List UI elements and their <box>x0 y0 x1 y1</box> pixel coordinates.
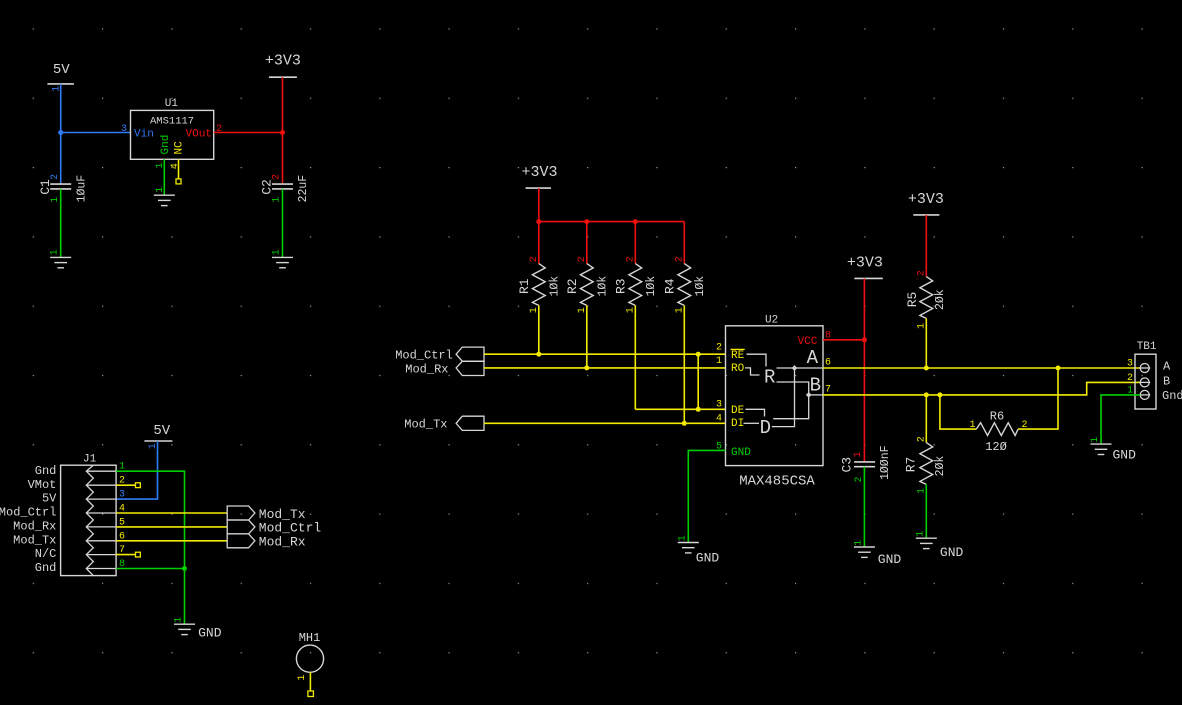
pin 8 U2 <box>825 331 831 342</box>
svg-text:GND: GND <box>696 551 720 566</box>
pin 5 U2 <box>716 442 722 453</box>
pin 2 J1 <box>119 476 125 487</box>
power symbol +3V3 (regulator output) <box>265 53 301 78</box>
svg-text:MH1: MH1 <box>299 631 321 645</box>
net label Mod_Rx (J1 side) <box>227 534 306 550</box>
capacitor C2 <box>259 174 310 203</box>
svg-text:2Øk: 2Øk <box>934 289 947 310</box>
svg-text:2: 2 <box>529 256 540 262</box>
pin 6 U2 <box>825 358 831 369</box>
svg-text:1ØuF: 1ØuF <box>76 175 89 203</box>
wire U2 GND pin <box>688 450 725 542</box>
node Gnd label <box>1162 389 1182 403</box>
pin 1 MH1 <box>297 675 308 681</box>
pin 1 U2 <box>716 356 722 367</box>
wire J1 pin5 <box>116 526 227 528</box>
terminal pin 2 TB1 <box>1127 373 1150 387</box>
svg-text:+3V3: +3V3 <box>847 254 883 271</box>
svg-text:Mod_Tx: Mod_Tx <box>13 533 56 547</box>
wire U1 Gnd pin <box>163 159 165 195</box>
junction R6/B <box>937 392 942 397</box>
wire 5V to U1 Vin <box>61 132 131 134</box>
svg-text:Gnd: Gnd <box>35 464 57 478</box>
svg-text:2: 2 <box>716 343 722 354</box>
resistor R5 20k <box>905 270 947 329</box>
wire Mod_Ctrl to U2 RE <box>484 353 726 355</box>
svg-text:1: 1 <box>969 420 975 431</box>
no-connect flag J1 pin7 <box>136 552 141 557</box>
connector J1 <box>61 454 117 576</box>
terminal pin 1 TB1 <box>1127 386 1150 400</box>
junction ground J1 <box>182 566 187 571</box>
svg-text:C3: C3 <box>840 457 855 473</box>
svg-text:R: R <box>764 366 775 388</box>
wire R2 bottom <box>586 305 588 368</box>
pin 4 U2 <box>716 413 722 424</box>
junction R2/Mod_Rx <box>584 365 589 370</box>
junction R1/Mod_Ctrl <box>536 352 541 357</box>
J1 pin label Mod_Ctrl <box>0 506 56 520</box>
svg-text:1Øk: 1Øk <box>548 276 561 297</box>
svg-text:U1: U1 <box>165 98 179 110</box>
svg-text:GND: GND <box>940 545 964 560</box>
svg-text:N/C: N/C <box>35 547 57 561</box>
wire U1 NC stub <box>178 159 180 179</box>
no-connect flag J1 pin2 <box>136 483 141 488</box>
wire J1 pin1 ground <box>116 471 184 624</box>
U2 internal letter B <box>810 375 821 397</box>
pin 7 J1 <box>119 545 125 556</box>
wire +3V3 to R5 <box>925 215 927 277</box>
svg-text:R7: R7 <box>904 457 919 473</box>
net label Mod_Tx (J1 side) <box>227 506 306 522</box>
power symbol +3V3 (VCC) <box>847 254 883 278</box>
svg-text:+3V3: +3V3 <box>908 191 944 208</box>
svg-text:Mod_Rx: Mod_Rx <box>259 535 306 550</box>
pin 2 U1 <box>216 124 222 135</box>
net label Mod_Ctrl (left) <box>395 347 484 362</box>
junction R5/A <box>924 366 929 371</box>
power symbol 5V (J1) <box>144 423 172 449</box>
svg-text:DE: DE <box>731 405 745 417</box>
power symbol +3V3 (R5) <box>908 191 944 215</box>
no-connect flag U1 NC <box>176 179 181 184</box>
wire C3 to ground <box>863 467 865 547</box>
resistor R7 20k <box>904 436 947 494</box>
U2 pin name VCC <box>798 336 818 348</box>
U2 internal receiver R <box>764 366 775 388</box>
svg-text:5V: 5V <box>42 492 57 506</box>
node B label <box>1163 374 1170 388</box>
svg-text:MAX485CSA: MAX485CSA <box>739 473 815 489</box>
svg-text:AMS1117: AMS1117 <box>150 116 194 128</box>
wire B to R6 <box>940 395 976 429</box>
terminal block TB1 <box>1135 341 1157 409</box>
svg-text:Mod_Rx: Mod_Rx <box>405 362 448 376</box>
svg-text:3: 3 <box>1127 359 1133 370</box>
svg-text:C2: C2 <box>259 179 274 195</box>
svg-text:B: B <box>1163 374 1170 388</box>
svg-text:GND: GND <box>731 447 751 459</box>
junction R4/Mod_Tx <box>682 421 687 426</box>
mounting hole MH1 <box>296 631 323 672</box>
svg-text:2Øk: 2Øk <box>934 456 947 477</box>
wire U2 VCC pin <box>823 339 864 341</box>
svg-text:C1: C1 <box>38 179 53 195</box>
svg-text:1Øk: 1Øk <box>645 276 658 297</box>
wire 5V vertical <box>60 84 62 184</box>
svg-text:GND: GND <box>878 552 902 567</box>
wire R5 to A net <box>925 318 927 368</box>
svg-text:Mod_Tx: Mod_Tx <box>259 507 306 522</box>
svg-text:Vin: Vin <box>134 128 154 140</box>
svg-text:3: 3 <box>119 490 125 501</box>
resistor R6 120 <box>969 410 1027 455</box>
net label Mod_Tx (left) <box>404 416 484 431</box>
wire Mod_Tx to U2 DI <box>484 422 726 424</box>
svg-text:R5: R5 <box>905 292 920 308</box>
junction bus R2 <box>584 219 589 224</box>
junction R7/B <box>924 392 929 397</box>
svg-text:+3V3: +3V3 <box>521 164 557 181</box>
svg-text:1: 1 <box>1090 437 1101 443</box>
pin 7 U2 <box>825 384 831 395</box>
wire B net (pin 7) <box>823 382 1140 395</box>
wire 5V to J1 pin3 <box>116 441 157 499</box>
svg-text:5V: 5V <box>53 62 70 78</box>
power symbol 5V (input) <box>47 62 74 92</box>
svg-text:R1: R1 <box>517 278 532 294</box>
svg-text:Mod_Ctrl: Mod_Ctrl <box>0 506 56 520</box>
svg-text:VCC: VCC <box>798 336 818 348</box>
U2 internal wiring <box>744 354 823 426</box>
svg-text:1: 1 <box>854 540 865 546</box>
U2 pin name DE <box>731 405 745 417</box>
U2 pin name GND <box>731 447 751 459</box>
svg-text:4: 4 <box>170 163 181 169</box>
svg-text:VMot: VMot <box>28 478 57 492</box>
svg-text:1: 1 <box>50 197 61 203</box>
wire R3 to DE row <box>635 408 725 410</box>
svg-text:2: 2 <box>50 174 61 180</box>
svg-text:1ØØnF: 1ØØnF <box>879 445 892 480</box>
svg-text:D: D <box>760 417 771 439</box>
resistor R2 10k <box>565 256 609 313</box>
svg-text:2: 2 <box>917 270 928 276</box>
pin 2 U2 <box>716 343 722 354</box>
wire J1 pin6 <box>116 540 227 542</box>
wire J1 pin7 stub <box>116 554 136 556</box>
junction 5V node <box>58 130 63 135</box>
wire R1 top stub <box>538 222 540 264</box>
terminal pin 3 TB1 <box>1127 359 1150 373</box>
svg-text:Gnd: Gnd <box>35 561 57 575</box>
svg-text:A: A <box>807 347 819 369</box>
svg-text:RE: RE <box>731 350 745 362</box>
wire C2 to ground <box>282 189 284 258</box>
svg-text:J1: J1 <box>83 454 97 466</box>
wire +3V3 vertical <box>282 77 284 184</box>
wire R3 top stub <box>634 222 636 264</box>
pin 3 J1 <box>119 490 125 501</box>
resistor R4 10k <box>663 256 707 313</box>
U2 internal letter A <box>807 347 819 369</box>
svg-text:5V: 5V <box>153 423 170 439</box>
svg-text:1: 1 <box>50 249 61 255</box>
svg-text:1: 1 <box>853 451 864 457</box>
ground under J1 <box>174 617 222 641</box>
J1 pin label VMot <box>28 478 57 492</box>
wire R2 top stub <box>586 222 588 264</box>
U2 pin name DI <box>731 418 744 430</box>
svg-text:1: 1 <box>716 356 722 367</box>
svg-text:2: 2 <box>675 256 686 262</box>
wire A net (pin 6 to TB1) <box>823 367 1140 369</box>
wire R4 top stub <box>683 222 685 264</box>
resistor R3 10k <box>614 256 658 313</box>
J1 pin label Gnd <box>35 561 57 575</box>
wire +3V3 bus <box>539 221 685 223</box>
svg-text:1: 1 <box>272 197 283 203</box>
svg-text:2: 2 <box>577 256 588 262</box>
capacitor C3 100nF <box>840 445 893 482</box>
wire +3V3 to bus <box>538 188 540 222</box>
wire J1 pin8 ground <box>116 568 184 570</box>
junction bus R1 <box>536 219 541 224</box>
svg-text:1: 1 <box>297 675 308 681</box>
net label Mod_Rx (left) <box>405 361 484 376</box>
resistor R1 10k <box>517 256 561 313</box>
svg-text:4: 4 <box>716 413 722 424</box>
svg-text:R2: R2 <box>565 278 580 294</box>
J1 pin label Mod_Rx <box>13 520 56 534</box>
svg-text:GND: GND <box>1113 448 1137 463</box>
svg-text:2: 2 <box>917 436 928 442</box>
wire RE-DE tie <box>697 354 699 409</box>
svg-text:1Øk: 1Øk <box>694 276 707 297</box>
wire R7 top <box>925 395 927 443</box>
junction +3V3 node <box>280 130 285 135</box>
svg-text:DI: DI <box>731 418 744 430</box>
svg-text:Gnd: Gnd <box>1162 389 1182 403</box>
wire R1 bottom <box>538 305 540 354</box>
svg-text:R6: R6 <box>990 410 1004 424</box>
wire R7 to ground <box>925 484 927 538</box>
svg-text:22uF: 22uF <box>297 175 310 203</box>
svg-text:RO: RO <box>731 363 745 375</box>
svg-text:U2: U2 <box>765 315 778 327</box>
svg-text:Mod_Tx: Mod_Tx <box>404 418 447 432</box>
ground under U1 <box>154 187 175 206</box>
net label Mod_Ctrl (J1 side) <box>227 520 321 536</box>
ground under C3 <box>854 540 902 567</box>
wire MH1 stub <box>309 672 311 691</box>
wire C1 to ground <box>60 189 62 258</box>
wire R6 to A <box>1018 368 1058 429</box>
svg-text:R4: R4 <box>663 278 678 294</box>
op-amp U1 AMS1117 regulator <box>131 98 214 160</box>
svg-text:+3V3: +3V3 <box>265 53 301 70</box>
ground under R7 <box>915 531 963 560</box>
J1 pin label 5V <box>42 492 57 506</box>
svg-text:Gnd: Gnd <box>160 135 172 155</box>
pin 1 U1 <box>155 163 166 169</box>
junction R6/A <box>1056 366 1061 371</box>
svg-text:2: 2 <box>1127 373 1133 384</box>
svg-text:A: A <box>1163 359 1171 373</box>
svg-text:1: 1 <box>272 249 283 255</box>
junction DE tie bottom <box>696 407 701 412</box>
U2 internal driver D <box>760 417 771 439</box>
wire Mod_Rx to U2 RO <box>484 367 726 369</box>
svg-text:3: 3 <box>121 124 127 135</box>
J1 pin label Gnd <box>35 464 57 478</box>
pin 3 U2 <box>716 400 722 411</box>
wire +3V3 VCC vertical <box>863 278 865 462</box>
junction bus R3 <box>633 219 638 224</box>
ground under C2 <box>272 249 294 267</box>
svg-text:B: B <box>810 375 821 397</box>
pin 1 J1 <box>119 462 125 473</box>
no-connect flag MH1 <box>308 691 314 697</box>
ground under C1 <box>50 249 71 267</box>
U2 pin name RE <box>731 349 745 361</box>
svg-text:GND: GND <box>198 626 222 641</box>
J1 pin label Mod_Tx <box>13 533 56 547</box>
U2 pin name RO <box>731 363 745 375</box>
pin 4 J1 <box>119 504 125 515</box>
svg-text:7: 7 <box>825 384 831 395</box>
svg-text:1: 1 <box>155 187 166 193</box>
pin 5 J1 <box>119 517 125 528</box>
svg-text:Mod_Rx: Mod_Rx <box>13 520 56 534</box>
pin 3 U1 <box>121 124 127 135</box>
svg-text:Mod_Ctrl: Mod_Ctrl <box>259 521 322 536</box>
wire J1 pin4 <box>116 512 227 514</box>
capacitor C1 <box>38 174 89 203</box>
svg-text:NC: NC <box>174 141 186 155</box>
svg-text:1: 1 <box>677 535 688 541</box>
svg-text:12Ø: 12Ø <box>985 440 1007 454</box>
node A label <box>1163 359 1171 373</box>
ground under U2 <box>677 535 719 565</box>
pin 8 J1 <box>119 559 125 570</box>
wire TB1 pin1 to ground <box>1101 395 1140 444</box>
svg-text:1Øk: 1Øk <box>596 276 609 297</box>
junction RE tie top <box>696 352 701 357</box>
power symbol +3V3 (pull-up bank) <box>521 164 557 188</box>
svg-text:2: 2 <box>272 174 283 180</box>
IC U2 MAX485CSA <box>726 315 824 490</box>
svg-text:Mod_Ctrl: Mod_Ctrl <box>395 348 453 362</box>
junction VCC <box>862 337 867 342</box>
wire J1 pin2 stub <box>116 484 136 486</box>
svg-text:1: 1 <box>915 531 926 537</box>
svg-text:2: 2 <box>626 256 637 262</box>
wire U1 VOut to +3V3 <box>214 132 283 134</box>
pin 6 J1 <box>119 531 125 542</box>
J1 pin label N/C <box>35 547 57 561</box>
svg-text:3: 3 <box>716 400 722 411</box>
svg-text:R3: R3 <box>614 278 629 294</box>
wire R3 bottom <box>634 305 636 409</box>
wire R4 bottom <box>683 305 685 423</box>
svg-text:TB1: TB1 <box>1137 341 1157 353</box>
pin 4 U1 <box>170 163 181 169</box>
svg-text:VOut: VOut <box>186 128 212 140</box>
svg-text:1: 1 <box>174 617 185 623</box>
ground under TB1 <box>1090 437 1136 463</box>
svg-text:2: 2 <box>854 476 865 482</box>
svg-text:6: 6 <box>825 358 831 369</box>
